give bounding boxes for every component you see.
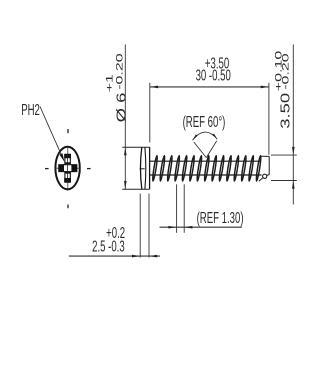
front view vertical centerline: [67, 146, 69, 191]
dim ref1.30 left extension line: [176, 184, 178, 233]
text dia 6 (rotated): [115, 92, 129, 122]
svg-text:(REF 1.30): (REF 1.30): [197, 208, 244, 226]
tip runout tail: [259, 178, 263, 181]
tip crest top line: [261, 155, 270, 157]
side view head right face: [149, 147, 151, 189]
dim dia6 top arrow: [124, 147, 127, 155]
dim ref1.30 line: [160, 226, 242, 228]
svg-text:30 -0.50: 30 -0.50: [196, 66, 231, 84]
dim ref60 arc left arrow: [193, 134, 198, 140]
dim 3.50 bottom arrow (up): [292, 181, 295, 189]
side view head dome inner arc: [144, 147, 147, 189]
centerline tick bottom: [67, 205, 69, 209]
svg-text:3.50: 3.50: [279, 93, 293, 129]
recess horizontal slot right wing: [71, 164, 76, 172]
dim 30 left extension line: [149, 83, 151, 143]
dim 2.5 line: [69, 255, 160, 257]
dim 3.50 top arrow (down): [292, 147, 295, 155]
dim ref1.30 right extension line: [183, 184, 185, 233]
dim 30 line: [150, 86, 269, 88]
recess horizontal slot left wing: [59, 164, 64, 172]
svg-text:PH2: PH2: [21, 101, 40, 119]
dim 2.5 left extension line: [139, 194, 141, 258]
recess vertical slot top cap: [64, 154, 71, 158]
text +3.50: [205, 54, 229, 72]
recess vertical slot: [65, 154, 70, 182]
centerline tick top: [67, 129, 69, 133]
dim 30 right extension line: [268, 83, 270, 155]
dim 3.50 line: [292, 45, 294, 205]
text -0.20 left (rotated): [114, 53, 124, 89]
recess striation upper: [65, 162, 70, 164]
recess horizontal slot: [59, 165, 77, 172]
recess center vertical line: [67, 154, 69, 182]
dim 2.5 right arrow (pointing left): [149, 255, 157, 258]
svg-text:-0.20: -0.20: [114, 53, 124, 89]
text PH2: [21, 101, 40, 119]
svg-text:-0.20: -0.20: [280, 53, 290, 89]
recess vertical slot bottom cap: [64, 178, 71, 182]
dim ref1.30 left arrow (pointing right): [168, 226, 176, 229]
side view head bottom edge + dia ext line: [122, 188, 149, 190]
text -0.20 right (rotated): [280, 53, 290, 89]
side view head dome outer arc: [140, 147, 141, 189]
dim dia6 line: [124, 45, 126, 190]
side view head top edge + dia ext line: [122, 146, 149, 148]
core bottom line: [150, 174, 262, 176]
dim 2.5 right extension line: [148, 194, 150, 258]
svg-text:Ø 6: Ø 6: [115, 92, 129, 122]
PH2 leader line: [40, 107, 63, 158]
dim 30 right arrow: [261, 86, 269, 89]
dim 2.5 left arrow (pointing right): [132, 255, 140, 258]
centerline tick left: [45, 168, 49, 170]
dim dia6 bottom arrow: [124, 181, 127, 189]
centerline tick right: [87, 168, 91, 170]
text +1 (rotated): [104, 74, 114, 92]
recess striation lower: [65, 172, 70, 174]
dim ref1.30 right arrow (pointing left): [184, 226, 192, 229]
text +0.10 (rotated): [273, 51, 283, 91]
text (REF 1.30): [197, 208, 244, 226]
svg-text:(REF 60°): (REF 60°): [183, 112, 226, 130]
text (REF 60): [183, 112, 226, 130]
text 2.5 -0.3: [92, 237, 125, 255]
dim ref60 arc right arrow: [212, 134, 217, 140]
tip join: [267, 174, 269, 177]
text +0.2: [106, 223, 125, 241]
PH2 leader arrowhead: [60, 153, 65, 162]
core top line: [150, 160, 261, 162]
text 3.50 (rotated): [279, 93, 293, 129]
tip thread runout curl: [263, 174, 267, 178]
dim ref60 right flank: [206, 141, 217, 158]
thread loops: [152, 155, 158, 181]
front view horizontal centerline: [55, 167, 80, 169]
front view head outline circle: [55, 147, 79, 190]
dim ref60 left flank: [194, 142, 207, 158]
tip end face: [268, 156, 270, 174]
svg-text:+1: +1: [104, 74, 114, 92]
text 30 -0.50: [196, 66, 231, 84]
side view recess silhouette tick: [140, 168, 145, 170]
svg-text:2.5 -0.3: 2.5 -0.3: [92, 237, 125, 255]
dim 3.50 bottom extension line: [271, 180, 297, 182]
dim ref60 arc: [193, 132, 218, 140]
dim 3.50 top extension line: [271, 154, 297, 156]
dim 30 left arrow: [150, 86, 158, 89]
